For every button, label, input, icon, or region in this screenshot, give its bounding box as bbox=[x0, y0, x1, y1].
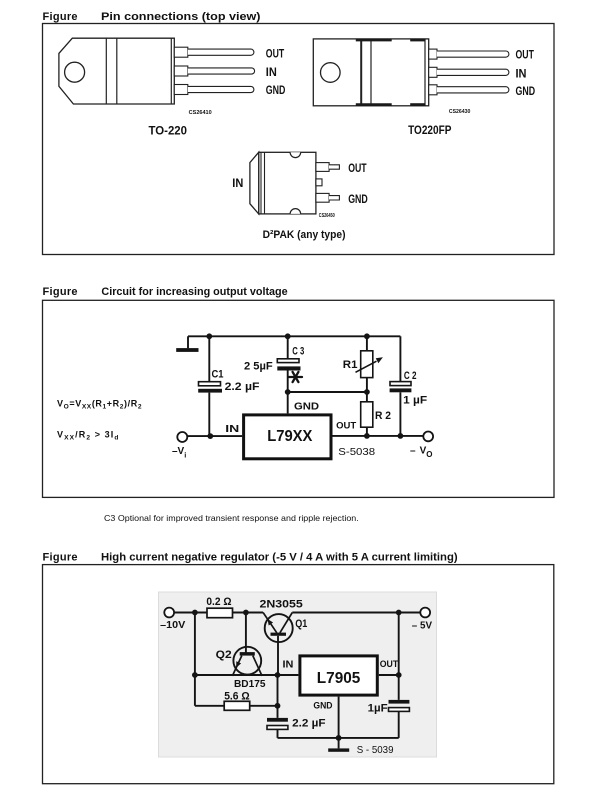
svg-text:2.2 µF: 2.2 µF bbox=[225, 381, 260, 393]
terminal -Vi bbox=[177, 432, 187, 442]
junction dots bbox=[192, 610, 402, 741]
figure 2 border box bbox=[43, 300, 555, 497]
svg-text:OUT: OUT bbox=[266, 49, 284, 61]
svg-text:2.2 µF: 2.2 µF bbox=[292, 717, 326, 729]
wire 2.2uF bottom bbox=[277, 729, 279, 738]
wire C3 bottom / GND pin bbox=[287, 371, 289, 414]
resistor 5.6 ohm bbox=[224, 691, 250, 711]
svg-text:0.2 Ω: 0.2 Ω bbox=[206, 596, 231, 608]
capacitor C2 bbox=[390, 370, 428, 407]
wire top rail right bbox=[292, 612, 420, 614]
wire output rail bbox=[333, 435, 425, 437]
regulator U1 L79XX bbox=[244, 415, 331, 459]
TO-220 pin 3 (GND) bbox=[174, 85, 254, 95]
capacitor C1 bbox=[198, 369, 260, 394]
figure 3 border box bbox=[43, 565, 554, 784]
wire C3-R1R2 link bbox=[288, 391, 367, 393]
capacitor 2.2uF bbox=[267, 717, 326, 729]
capacitor C3 bbox=[244, 346, 304, 373]
D2PAK middle stub bbox=[316, 179, 322, 186]
svg-text:IN: IN bbox=[283, 659, 294, 670]
wire R1 top bbox=[366, 336, 368, 351]
svg-text:Pin connections (top view): Pin connections (top view) bbox=[101, 11, 261, 23]
resistor R1 (variable) bbox=[343, 351, 383, 378]
wire after R 0.2 bbox=[233, 612, 264, 614]
svg-text:S - 5039: S - 5039 bbox=[357, 744, 394, 756]
wire 5.6 ohm row right bbox=[250, 705, 278, 707]
wire C1 top bbox=[208, 336, 210, 381]
TO220FP pin 2 (IN) bbox=[429, 67, 509, 77]
TO220FP thick molding edges bbox=[356, 40, 426, 105]
svg-text:TO-220: TO-220 bbox=[149, 125, 188, 137]
package D2PAK body bbox=[259, 152, 316, 214]
resistor R2 bbox=[361, 402, 391, 427]
svg-text:C 2: C 2 bbox=[404, 370, 417, 382]
svg-text:CS26430: CS26430 bbox=[449, 109, 471, 115]
svg-text:L7905: L7905 bbox=[317, 670, 361, 687]
svg-text:Q2: Q2 bbox=[216, 649, 232, 661]
wire 2.2uF top bbox=[277, 675, 279, 718]
figure 1 heading bbox=[43, 11, 261, 23]
TO220FP mounting hole bbox=[321, 63, 341, 83]
wire top rail left bbox=[174, 612, 207, 614]
wire right vertical bottom bbox=[398, 711, 400, 738]
transistor Q1 2N3055 bbox=[260, 599, 308, 643]
svg-text:CS26410: CS26410 bbox=[189, 110, 212, 116]
terminal -10V bbox=[164, 608, 174, 618]
svg-text:5.6 Ω: 5.6 Ω bbox=[224, 691, 250, 703]
terminal -Vo bbox=[423, 432, 433, 442]
svg-text:Figure: Figure bbox=[43, 552, 78, 564]
C3 optional-mark asterisk bbox=[289, 372, 302, 382]
wire OUT bbox=[379, 674, 399, 676]
TO-220 pin 1 (OUT) bbox=[174, 47, 254, 57]
svg-text:C 3: C 3 bbox=[292, 346, 304, 358]
svg-text:GND: GND bbox=[313, 700, 333, 710]
D2PAK tab lines bbox=[261, 152, 265, 214]
wire C2 bottom bbox=[399, 392, 401, 436]
figure 2 heading bbox=[43, 286, 288, 298]
TO220FP pin 1 (OUT) bbox=[429, 49, 509, 59]
svg-text:IN: IN bbox=[232, 178, 243, 190]
svg-text:– 5V: – 5V bbox=[412, 620, 432, 632]
wire 5.6 ohm row left bbox=[195, 705, 224, 707]
capacitor 1uF bbox=[368, 700, 410, 714]
svg-text:OUT: OUT bbox=[380, 659, 399, 670]
svg-text:GND: GND bbox=[516, 86, 536, 98]
svg-text:R1: R1 bbox=[343, 359, 358, 371]
scan background bbox=[159, 592, 437, 757]
wire R1-R2 bbox=[366, 378, 368, 402]
wire GND pin bbox=[338, 697, 340, 749]
wire R2 bottom bbox=[366, 427, 368, 436]
wire C3 top bbox=[287, 336, 289, 359]
svg-text:Circuit for increasing output: Circuit for increasing output voltage bbox=[101, 286, 287, 298]
D2PAK tab bbox=[250, 152, 259, 214]
wire ground drop bbox=[187, 336, 189, 348]
svg-text:IN: IN bbox=[266, 67, 277, 79]
svg-text:OUT: OUT bbox=[516, 50, 534, 62]
TO220FP pin 3 (GND) bbox=[429, 85, 509, 95]
D2PAK top notch bbox=[290, 152, 301, 157]
svg-text:1 µF: 1 µF bbox=[403, 395, 427, 407]
junction dots bbox=[206, 333, 403, 439]
wire bottom rail bbox=[278, 737, 399, 739]
svg-text:–10V: –10V bbox=[160, 619, 185, 631]
svg-text:OUT: OUT bbox=[348, 163, 366, 175]
svg-text:D²PAK (any type): D²PAK (any type) bbox=[263, 229, 346, 241]
svg-text:High current negative regulato: High current negative regulator (-5 V / … bbox=[101, 552, 458, 564]
svg-text:GND: GND bbox=[348, 194, 368, 206]
svg-text:BD175: BD175 bbox=[234, 678, 266, 690]
svg-text:L79XX: L79XX bbox=[267, 428, 312, 445]
svg-text:Q1: Q1 bbox=[295, 618, 307, 630]
svg-text:CS26450: CS26450 bbox=[319, 213, 335, 219]
package TO220FP body bbox=[313, 39, 428, 106]
wire left vertical bbox=[194, 613, 196, 706]
svg-text:TO220FP: TO220FP bbox=[408, 125, 452, 137]
terminal -5V bbox=[420, 608, 430, 618]
TO-220 pin 2 (IN) bbox=[174, 66, 254, 76]
TO220FP body lines bbox=[361, 39, 425, 106]
svg-text:C3 Optional for improved trans: C3 Optional for improved transient respo… bbox=[104, 513, 359, 523]
svg-text:OUT: OUT bbox=[336, 421, 356, 432]
wire Q1 base bbox=[277, 636, 279, 675]
svg-text:Figure: Figure bbox=[43, 11, 78, 23]
svg-text:1µF: 1µF bbox=[368, 702, 388, 714]
wire input rail bbox=[187, 435, 242, 437]
D2PAK pin OUT bbox=[316, 163, 340, 172]
svg-text:VO=VXX(R1+R2)/R2: VO=VXX(R1+R2)/R2 bbox=[57, 399, 142, 411]
wire C1 bottom bbox=[208, 393, 210, 437]
wire Q2 base bbox=[245, 613, 247, 654]
svg-text:C1: C1 bbox=[212, 369, 224, 381]
svg-text:2 5µF: 2 5µF bbox=[244, 361, 273, 373]
svg-text:GND: GND bbox=[266, 85, 286, 97]
ground symbol bbox=[176, 348, 198, 352]
svg-text:–VO: –VO bbox=[410, 446, 432, 460]
ground symbol bbox=[328, 748, 349, 751]
svg-text:S-5038: S-5038 bbox=[338, 446, 375, 458]
resistor 0.2 ohm bbox=[206, 596, 232, 618]
D2PAK bottom notch bbox=[290, 209, 301, 214]
wire C2 top bbox=[399, 336, 401, 381]
svg-text:IN: IN bbox=[516, 68, 527, 80]
svg-text:VXX/R2 > 3Id: VXX/R2 > 3Id bbox=[57, 430, 120, 442]
TO-220 mounting hole bbox=[65, 62, 85, 82]
figure 1 border box bbox=[43, 24, 555, 255]
svg-text:R 2: R 2 bbox=[375, 410, 391, 422]
svg-text:IN: IN bbox=[225, 423, 239, 435]
figure 3 heading bbox=[43, 552, 458, 564]
regulator U2 L7905 bbox=[300, 656, 377, 695]
transistor Q2 BD175 bbox=[216, 647, 266, 690]
wire top rail bbox=[188, 335, 400, 337]
wire right vertical top bbox=[398, 613, 400, 700]
svg-text:Figure: Figure bbox=[43, 286, 78, 298]
wire IN row bbox=[195, 674, 299, 676]
svg-text:2N3055: 2N3055 bbox=[260, 599, 303, 611]
svg-text:GND: GND bbox=[294, 400, 320, 412]
TO-220 body lines bbox=[106, 38, 171, 104]
package TO-220 body bbox=[59, 38, 174, 104]
svg-text:–Vi: –Vi bbox=[172, 446, 186, 460]
D2PAK pin GND bbox=[316, 193, 340, 202]
